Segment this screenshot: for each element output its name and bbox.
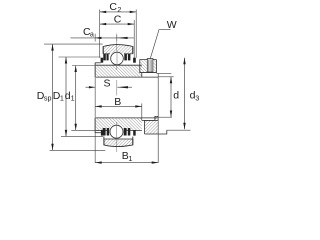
left ext line (inner ring left face) <box>94 77 96 163</box>
svg-text:W: W <box>167 19 177 31</box>
flinger bottom left <box>101 130 104 136</box>
svg-text:C: C <box>109 1 117 13</box>
collar top bottom edge <box>140 72 157 74</box>
seal bottom left <box>103 128 106 136</box>
inner ring right face / B1 ext <box>157 73 159 163</box>
svg-text:3: 3 <box>195 94 199 103</box>
svg-text:d: d <box>173 89 179 101</box>
ball bottom <box>110 125 123 138</box>
svg-text:1: 1 <box>60 94 64 103</box>
outer ring bottom side faces <box>103 137 105 145</box>
svg-text:C: C <box>114 14 122 26</box>
dim C2 <box>100 11 137 13</box>
centerline vertical <box>116 34 118 153</box>
svg-text:B: B <box>114 96 121 108</box>
dim D1 <box>65 57 67 136</box>
raceway halo bottom <box>109 124 124 139</box>
dim Dsp <box>52 44 54 150</box>
dim d3 <box>184 58 186 130</box>
collar bottom edge <box>145 130 167 134</box>
ball top <box>111 52 124 65</box>
inner ring extension top face <box>95 62 100 64</box>
outer ring top <box>103 45 133 54</box>
svg-text:S: S <box>104 77 111 89</box>
grub screw slot lines <box>146 59 148 72</box>
dim B <box>95 105 142 107</box>
dim S <box>86 86 96 88</box>
collar top (eccentric locking collar) <box>140 60 157 73</box>
C2 right ext line <box>135 10 137 58</box>
svg-text:1: 1 <box>128 154 132 163</box>
flinger bottom right <box>133 130 136 136</box>
inner ring bottom band <box>96 118 142 130</box>
dim d1 <box>75 66 77 131</box>
inner ring extension bottom face <box>95 132 101 134</box>
dim B1 <box>95 162 158 164</box>
outer ring top outline <box>103 45 133 54</box>
flinger top right <box>133 58 136 63</box>
C2 C left ext line <box>99 10 101 58</box>
seal top right <box>124 54 127 61</box>
outer ring right face top <box>132 47 134 54</box>
outer ring bottom outline <box>104 139 133 147</box>
raceway halo top <box>110 51 125 66</box>
inner ring right face short (B ext) <box>141 104 143 121</box>
outer ring bottom <box>104 139 133 147</box>
dim d <box>170 77 172 117</box>
outer ring left face top <box>102 47 104 54</box>
collar bottom ext line <box>156 72 171 74</box>
flinger top left <box>101 58 104 63</box>
dim C <box>100 23 135 25</box>
inner ring top band <box>96 65 142 77</box>
inner ring bottom band edges <box>96 117 159 119</box>
dim Ca <box>71 37 134 39</box>
svg-text:1: 1 <box>71 94 75 103</box>
C right ext line <box>133 20 135 58</box>
svg-text:a: a <box>90 30 94 39</box>
svg-text:sp: sp <box>44 94 52 103</box>
inner ring top band edges <box>96 64 142 66</box>
collar bottom top edge <box>142 119 159 121</box>
collar bottom block <box>145 120 159 134</box>
seal bottom right <box>124 128 127 136</box>
inner ring left face <box>94 63 96 77</box>
seal top left <box>103 54 106 61</box>
